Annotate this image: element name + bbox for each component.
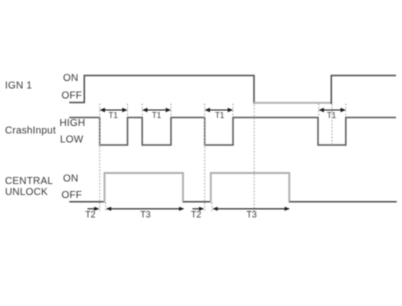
signal IGN1 dark second ON segment [331, 76, 395, 104]
signal IGN1 gray OFF segment [254, 102, 331, 104]
dotted guide line CrashInput fall 4 [318, 104, 320, 117]
signal CENTRAL UNLOCK gray pulse 1 [105, 173, 184, 202]
dotted guide line CrashInput fall 3 [204, 104, 206, 212]
svg-text:T1: T1 [327, 111, 337, 120]
svg-text:T3: T3 [140, 210, 150, 220]
dotted guide line CrashInput rise 2 [170, 104, 172, 117]
svg-text:OFF: OFF [62, 91, 83, 102]
dotted guide line CrashInput rise 3 [232, 104, 234, 117]
dotted guide line IGN1 fall [253, 105, 255, 212]
dotted guide line CU rise 1 [105, 203, 107, 213]
signal CrashInput [70, 118, 395, 146]
svg-text:T1: T1 [215, 111, 225, 120]
dimension arrow T1 pulse 4 [319, 108, 346, 112]
svg-text:T1: T1 [152, 111, 162, 120]
dimension arrow T1 pulse 2 [142, 108, 171, 112]
dotted guide line CrashInput rise 1 [127, 104, 129, 117]
signal CENTRAL UNLOCK dark OFF between pulses [184, 201, 210, 203]
svg-text:ON: ON [63, 73, 78, 84]
signal CENTRAL UNLOCK dark OFF tail [290, 201, 396, 203]
dimension arrow T3 second [213, 207, 290, 211]
signal CENTRAL UNLOCK gray pulse 2 [211, 173, 289, 202]
signal IGN1 dark segments [70, 76, 254, 104]
dimension arrow T2 first [88, 207, 99, 211]
svg-text:CENTRAL: CENTRAL [5, 176, 53, 187]
dotted guide line CU rise 2 [211, 203, 213, 213]
svg-text:OFF: OFF [62, 190, 83, 201]
svg-text:CrashInput: CrashInput [5, 126, 56, 137]
svg-text:T2: T2 [85, 210, 95, 220]
dimension arrow T1 pulse 1 [100, 108, 128, 112]
dotted guide line CrashInput fall 2 [141, 104, 143, 117]
dimension arrow T2 second [193, 207, 204, 211]
dotted guide line CrashInput rise 4 [345, 104, 347, 117]
svg-text:LOW: LOW [60, 135, 84, 146]
svg-text:T1: T1 [109, 111, 119, 120]
svg-text:T3: T3 [246, 210, 256, 220]
dimension arrow T1 pulse 3 [205, 108, 233, 112]
svg-text:T2: T2 [191, 210, 201, 220]
svg-text:ON: ON [63, 174, 78, 185]
dotted guide line IGN1 rise 2 [331, 104, 333, 145]
dimension arrow T3 first [106, 207, 184, 211]
svg-text:HIGH: HIGH [60, 118, 86, 129]
dotted guide line CrashInput fall 1 [99, 104, 101, 212]
signal CENTRAL UNLOCK dark OFF lead-in [70, 201, 105, 203]
svg-text:IGN 1: IGN 1 [5, 81, 32, 92]
svg-text:UNLOCK: UNLOCK [5, 187, 48, 198]
